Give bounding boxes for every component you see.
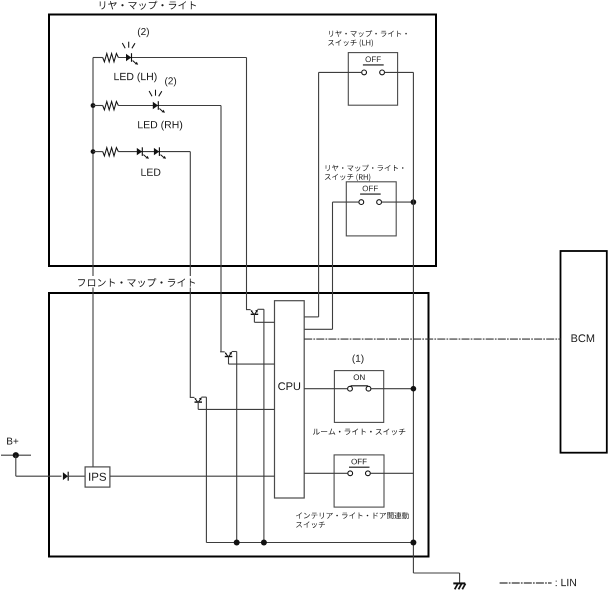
rear switch LH label line2: [328, 39, 373, 47]
node rail-common junction: [410, 540, 416, 546]
interior switch label line1: [296, 512, 409, 519]
front map light title: [78, 278, 195, 287]
wire common right vertical: [412, 72, 414, 573]
wire Q3 base vertical: [197, 402, 199, 409]
label mask behind front title: [74, 276, 200, 288]
wire branch3 mid segment: [118, 151, 190, 153]
wire S1 left vertical: [318, 72, 320, 317]
wire to ground horizontal: [413, 572, 459, 574]
transistor Q3: [190, 397, 207, 402]
wire Q3 base to CPU: [198, 408, 274, 410]
wire branch3 left segment: [93, 151, 103, 153]
rear map light box: [49, 15, 436, 267]
label LED (RH): [138, 121, 182, 131]
node branch2 tap: [91, 103, 96, 108]
node rail-Q1 junction: [261, 540, 267, 546]
node B+ tap: [13, 452, 19, 458]
wire Q1 output vertical: [263, 309, 265, 542]
LED D1 (LH): [122, 42, 138, 65]
LED D3a: [137, 147, 149, 159]
resistor R3: [103, 148, 119, 156]
LIN legend text: [556, 579, 576, 586]
wire to ground vertical: [459, 573, 461, 583]
transistor Q2: [220, 352, 237, 357]
wire S2 left lead: [333, 201, 360, 203]
rear map light title: [100, 1, 196, 10]
wire Q2 base to CPU: [229, 363, 275, 365]
wire Q1 base to CPU: [254, 321, 274, 323]
wire B+ stub: [1, 454, 31, 456]
wire Q2 base vertical: [228, 356, 230, 364]
resistor R1: [103, 54, 119, 62]
wire Q1 base vertical: [253, 314, 255, 322]
wire branch2 cathode vertical: [220, 106, 222, 352]
wire S1 right lead: [384, 71, 413, 73]
switch S4 interior light door-linked: [334, 455, 384, 507]
label (2) for D2: [165, 77, 176, 86]
label (2) for D1: [138, 28, 149, 37]
LED D3b: [154, 147, 166, 159]
wire S2 left vertical: [332, 202, 334, 329]
node S3-common junction: [411, 386, 417, 392]
wire S2 right lead: [381, 201, 413, 203]
wire S4 to common: [370, 472, 413, 474]
wire branch1 mid segment: [118, 57, 246, 59]
resistor R2: [103, 102, 119, 110]
interior switch label line2: [296, 521, 325, 528]
transistor Q1: [246, 309, 264, 314]
node branch3 tap: [91, 149, 96, 154]
label LED: [141, 169, 160, 176]
wire IPS to CPU: [110, 475, 275, 477]
wire S3 to common: [371, 388, 414, 390]
label B+: [7, 438, 18, 445]
IPS U3: [85, 467, 110, 487]
wire branch3 cathode vertical: [189, 152, 191, 398]
front map light box: [49, 293, 429, 557]
room light switch label: [313, 429, 405, 436]
wire CPU to S4: [304, 472, 348, 474]
IPS label: [89, 473, 106, 481]
wire branch2 left segment: [93, 105, 103, 107]
wire S1 to CPU: [304, 316, 318, 318]
CPU label: [278, 382, 300, 390]
wire B+ vertical: [15, 455, 17, 476]
wire B+ to diode: [16, 475, 62, 477]
wire ground rail: [206, 542, 413, 544]
wire branch1 cathode vertical: [246, 58, 248, 310]
wire diode to IPS: [68, 475, 85, 477]
wire CPU to S3: [304, 388, 347, 390]
switch S3 room light: [334, 371, 383, 423]
rear switch LH label line1: [329, 30, 407, 37]
switch S2 rear map light (RH): [346, 182, 396, 236]
node rail-Q2 junction: [234, 540, 240, 546]
wire branch2 mid segment: [118, 105, 221, 107]
rear switch RH label line2: [325, 174, 371, 182]
LED D2 (RH): [149, 90, 165, 113]
wire S1 left lead: [319, 71, 362, 73]
wire S2 to CPU: [304, 328, 332, 330]
BCM label: [572, 334, 595, 342]
label (1) for S3: [353, 355, 364, 364]
ground: [453, 583, 465, 589]
LIN legend line: [500, 582, 552, 584]
wire branch1 left segment: [93, 57, 103, 59]
label LED (LH): [114, 73, 156, 83]
wire Q3 output vertical: [205, 397, 207, 542]
node S2-common junction: [411, 199, 417, 205]
wire Q2 output vertical: [236, 352, 238, 543]
BCM box U2: [561, 251, 607, 453]
wire LIN bus (dash-dot): [304, 338, 560, 340]
switch S1 rear map light (LH): [348, 53, 397, 106]
diode D4: [63, 472, 68, 481]
rear switch RH label line1: [326, 165, 404, 172]
CPU U1: [275, 301, 305, 498]
wire LED anode bus vertical: [92, 58, 94, 467]
